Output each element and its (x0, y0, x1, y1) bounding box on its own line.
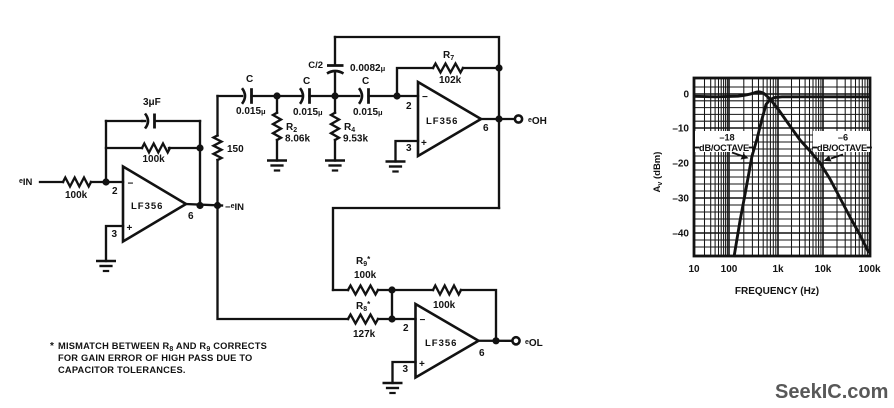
svg-text:−eIN: −eIN (225, 202, 244, 213)
svg-text:+: + (127, 223, 133, 234)
svg-text:10k: 10k (815, 264, 832, 275)
svg-text:–18: –18 (719, 133, 734, 143)
graph grid major (694, 78, 870, 256)
svg-text:100k: 100k (143, 154, 166, 165)
wire (105, 121, 107, 182)
node (196, 144, 203, 151)
op-amp U3 LF356 (403, 304, 486, 378)
node (492, 337, 499, 344)
svg-text:+: + (419, 359, 425, 370)
svg-text:C/2: C/2 (308, 60, 323, 71)
wire (91, 181, 123, 183)
svg-text:150: 150 (227, 144, 244, 155)
op-amp U2 LF356 (406, 82, 489, 156)
svg-text:C: C (246, 74, 253, 85)
ground R4 (325, 161, 345, 171)
svg-text:−: − (420, 315, 426, 326)
capacitor C/2 0.0082u (308, 37, 385, 96)
svg-text:9.53k: 9.53k (343, 134, 368, 145)
curve low-pass eOL (694, 92, 869, 253)
node (273, 92, 280, 99)
svg-text:8.06k: 8.06k (285, 134, 310, 145)
resistor R7 102k (433, 50, 463, 86)
svg-text:3: 3 (406, 143, 412, 154)
ground U1 (96, 261, 116, 271)
svg-text:100k: 100k (858, 264, 881, 275)
svg-text:3μF: 3μF (143, 97, 161, 108)
svg-text:0.015μ: 0.015μ (293, 107, 323, 118)
ground U2 (386, 162, 406, 172)
node (495, 64, 502, 71)
wire output U1 (186, 204, 222, 206)
svg-text:LF356: LF356 (425, 338, 457, 349)
capacitor 3uF (142, 97, 161, 129)
svg-text:Av (dBm): Av (dBm) (652, 152, 664, 193)
wire (199, 121, 201, 206)
wire pin3 (106, 226, 123, 261)
svg-text:100k: 100k (433, 300, 456, 311)
curve high-pass eOH (734, 97, 869, 257)
svg-text:−: − (422, 92, 428, 103)
terminal eOH (515, 115, 547, 127)
capacitor C 0.015u (353, 76, 383, 118)
label -18 dB/OCTAVE (695, 131, 753, 160)
capacitor C 0.015u (236, 74, 266, 117)
svg-text:*: * (50, 341, 54, 352)
graph grid minor (694, 78, 870, 256)
svg-text:6: 6 (483, 123, 489, 134)
svg-text:102k: 102k (439, 75, 462, 86)
svg-text:–10: –10 (672, 124, 689, 135)
watermark SeekIC.com (775, 381, 888, 403)
wire (391, 290, 393, 319)
resistor 100k feedback U1 (142, 144, 170, 166)
svg-text:0.015μ: 0.015μ (353, 107, 383, 118)
axis title FREQUENCY (Hz) (735, 286, 819, 297)
node -eIN (214, 202, 244, 213)
resistor R2 8.06k (273, 96, 310, 161)
wire output U3 (479, 340, 512, 342)
wire (216, 160, 218, 206)
resistor R1 100k (63, 178, 91, 202)
svg-text:FREQUENCY (Hz): FREQUENCY (Hz) (735, 286, 819, 297)
wire (335, 37, 499, 208)
svg-text:2: 2 (406, 101, 412, 112)
note text mismatch (50, 341, 267, 375)
svg-text:dB/OCTAVE: dB/OCTAVE (699, 143, 749, 153)
graph frame (694, 78, 870, 256)
node (495, 115, 502, 122)
svg-text:6: 6 (479, 348, 485, 359)
x axis labels (688, 264, 881, 275)
wire (333, 208, 499, 290)
node pin2 junction (102, 178, 109, 185)
node (393, 92, 400, 99)
svg-text:–6: –6 (838, 133, 848, 143)
svg-text:100: 100 (721, 264, 738, 275)
svg-text:LF356: LF356 (131, 201, 163, 212)
ground R2 (267, 161, 287, 171)
svg-text:FOR GAIN ERROR OF HIGH PASS DU: FOR GAIN ERROR OF HIGH PASS DUE TO (58, 353, 252, 363)
wire (397, 68, 499, 96)
svg-text:127k: 127k (353, 329, 376, 340)
svg-text:C: C (362, 76, 369, 87)
svg-text:0.0082μ: 0.0082μ (350, 63, 386, 74)
svg-text:0: 0 (683, 90, 689, 101)
svg-text:3: 3 (403, 364, 409, 375)
wire (216, 96, 218, 136)
resistor 150 (214, 136, 245, 161)
wire (106, 120, 200, 122)
op-amp U1 LF356 (112, 167, 195, 242)
resistor 100k feedback U3 (392, 286, 496, 342)
label -6 dB/OCTAVE (813, 131, 871, 162)
svg-text:C: C (303, 76, 310, 87)
svg-text:+: + (421, 138, 427, 149)
svg-text:dB/OCTAVE: dB/OCTAVE (817, 143, 867, 153)
svg-text:–20: –20 (672, 159, 689, 170)
wire pin3 U2 (396, 141, 419, 162)
wire (218, 206, 349, 320)
svg-text:0.015μ: 0.015μ (236, 106, 266, 117)
node (331, 92, 338, 99)
svg-text:LF356: LF356 (426, 116, 458, 127)
svg-text:3: 3 (112, 229, 118, 240)
axis title Av (dBm) (652, 152, 664, 193)
node (196, 202, 203, 209)
node (388, 315, 395, 322)
y axis labels (672, 90, 689, 240)
wire pin3 U3 (393, 362, 416, 383)
wire (369, 95, 419, 97)
svg-text:CAPACITOR TOLERANCES.: CAPACITOR TOLERANCES. (58, 365, 186, 375)
wire (218, 95, 243, 97)
wire (40, 181, 63, 183)
terminal eOL (512, 337, 542, 349)
resistor R8 127k (348, 300, 416, 340)
svg-text:–40: –40 (672, 229, 689, 240)
svg-text:10: 10 (688, 264, 700, 275)
node (388, 286, 395, 293)
resistor R4 9.53k (331, 96, 368, 161)
ground U3 (383, 383, 403, 393)
svg-text:2: 2 (112, 186, 118, 197)
capacitor C 0.015u (293, 76, 323, 118)
svg-text:2: 2 (403, 323, 409, 334)
svg-text:100k: 100k (354, 270, 377, 281)
svg-text:−: − (128, 179, 134, 190)
wire (252, 95, 302, 97)
svg-text:1k: 1k (772, 264, 784, 275)
svg-text:100k: 100k (65, 190, 88, 201)
svg-text:6: 6 (188, 211, 194, 222)
resistor R9 100k (333, 255, 392, 295)
svg-text:–30: –30 (672, 194, 689, 205)
wire (106, 147, 200, 149)
node eIN (19, 177, 33, 188)
wire output U2 (481, 118, 514, 120)
wire (310, 95, 360, 97)
svg-text:SeekIC.com: SeekIC.com (775, 381, 888, 403)
